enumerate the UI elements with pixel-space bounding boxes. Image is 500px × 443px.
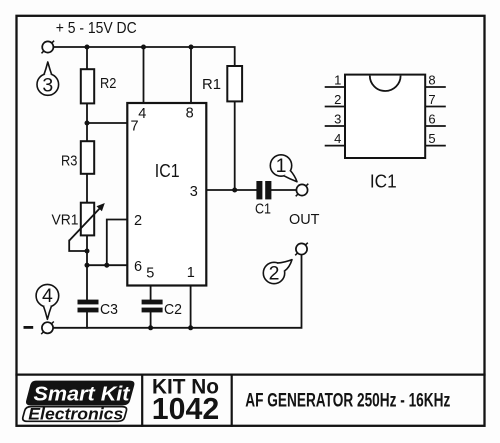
junction dot V+/pin4 [141,45,146,50]
title band divider 2 [231,375,233,426]
svg-text:7: 7 [131,119,139,135]
svg-text:4: 4 [138,106,146,122]
DIP pin 6 [425,125,446,127]
wire: pin 7 from node A [87,122,127,124]
wire: C3 bottom to ground rail [86,312,88,327]
resistor R3 [61,141,94,174]
capacitor C2 [142,300,182,318]
svg-text:1: 1 [334,73,341,88]
svg-text:C2: C2 [164,301,182,318]
wire: VR1 bottom down to C3 top [86,235,88,299]
minus sign at terminal 4 [24,326,34,329]
svg-text:3: 3 [42,74,53,96]
wire: C2 bottom to ground rail [150,312,152,327]
svg-text:Smart Kit: Smart Kit [34,383,131,406]
svg-text:8: 8 [186,105,194,121]
wire: R2 top branch [86,47,88,69]
wire: C1 to output terminal 1 [271,189,296,191]
junction dot V+/pin8 [189,45,194,50]
balloon 1 [270,155,297,182]
svg-text:1: 1 [276,155,287,177]
svg-text:5: 5 [428,131,435,146]
wire: pin 2 L-shape [107,220,128,266]
title band divider 1 [141,375,143,426]
junction dot node A (R2/R3/pin7) [85,121,90,126]
resistor R2 [81,69,117,103]
svg-text:6: 6 [134,259,142,275]
balloon 3 [37,62,59,96]
svg-text:R2: R2 [100,76,116,92]
svg-text:3: 3 [334,112,341,127]
DIP pin 2 [325,106,345,108]
junction dot pin1/ground rail [188,325,193,330]
wire: pin 8 stub from V+ rail [190,47,192,102]
svg-text:+ 5 - 15V DC: + 5 - 15V DC [56,20,137,37]
terminal 1 (output) [296,184,309,197]
svg-text:3: 3 [190,184,198,200]
wire: VR1 wiper connection [69,241,87,251]
junction dot C2/ground rail [148,325,153,330]
wire: pin 4 stub from V+ rail [143,47,145,102]
junction dot pin2/pin6 [104,263,109,268]
svg-text:R3: R3 [61,153,77,169]
DIP pin 1 [325,86,345,88]
variable resistor VR1 [52,203,105,241]
IC1 block (555) [127,103,206,286]
wire: ground rail from terminal 4 to terminal 2 drop [53,255,301,328]
wire: pin 1 stub to ground rail [190,286,192,328]
junction dot pin6 node [85,263,90,268]
svg-text:OUT: OUT [289,211,320,228]
svg-text:1042: 1042 [152,391,220,426]
DIP pin 5 [425,145,446,147]
svg-text:R1: R1 [202,77,221,93]
svg-text:4: 4 [334,131,341,146]
wire: R3 bottom to VR1 top [86,174,88,203]
balloon 2 [263,260,292,285]
resistor R1 [202,66,242,101]
DIP pin 4 [325,145,345,147]
svg-text:4: 4 [42,285,53,307]
wire: pin 3 to C1 [206,189,256,191]
svg-text:Electronics: Electronics [28,405,123,423]
DIP pin 8 [425,86,446,88]
junction dot wiper [85,249,90,254]
svg-text:AF GENERATOR 250Hz - 16KHz: AF GENERATOR 250Hz - 16KHz [245,391,450,412]
terminal 3 (V+ input) [42,41,55,54]
junction dot R1/pin3 [232,188,237,193]
wire: R2 bottom to node A [86,103,88,141]
svg-text:2: 2 [269,263,280,285]
svg-text:C1: C1 [255,202,271,218]
IC1 DIP-8 package (pinout view) [325,73,446,192]
svg-text:6: 6 [428,112,435,127]
Smart Kit Electronics logo [23,381,135,424]
svg-text:IC1: IC1 [155,161,180,181]
svg-text:2: 2 [134,213,142,229]
title band separator line [17,374,485,376]
terminal 2 [295,243,308,256]
terminal 4 (ground input) [41,322,54,335]
svg-text:C3: C3 [100,301,118,318]
svg-text:5: 5 [146,265,154,281]
svg-text:VR1: VR1 [52,213,79,229]
svg-text:8: 8 [428,73,435,88]
wire: R1 bottom to pin 3 junction [234,101,236,190]
svg-text:IC1: IC1 [370,171,397,191]
svg-text:7: 7 [428,92,435,107]
svg-text:1: 1 [187,265,195,281]
balloon 4 [36,284,59,319]
junction dot V+/R2 [85,45,90,50]
wire: pin 5 stub to C2 [150,286,152,300]
capacitor C1 [255,181,271,218]
DIP pin 7 [425,106,446,108]
svg-text:2: 2 [334,92,341,107]
wire: V+ rail from terminal 3 to R1 branch [53,47,234,66]
DIP pin 3 [325,125,345,127]
wire: pin 6 horizontal [87,264,127,266]
capacitor C3 [78,300,119,318]
